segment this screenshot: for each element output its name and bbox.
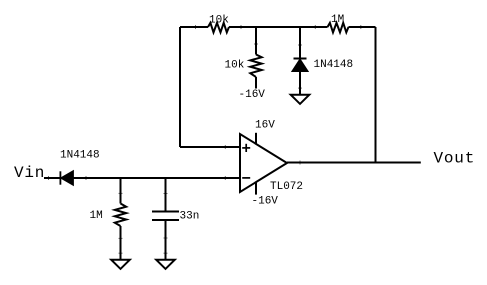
svg-text:-16V: -16V [239,89,266,101]
wire C1 bottom lead [165,220,167,259]
resistor R3 10k (vertical) [250,55,261,78]
svg-text:16V: 16V [255,120,275,132]
diode D2 1N4148 (vertical) [293,59,308,72]
pin tick R1 left [195,25,197,29]
resistor R4 1M (vertical) [115,204,126,227]
svg-text:Vin: Vin [14,164,45,182]
pin tick D1 left [48,176,50,180]
pin tick R1 right [240,25,242,29]
diode D1 1N4148 (input, pointing left) [60,171,73,184]
capacitor C1 33n [152,212,179,221]
svg-text:-16V: -16V [252,196,279,208]
pin tick R4 top [119,192,123,194]
ground (below D2) [291,95,310,104]
wire negative supply pin [255,182,257,195]
op-amp U1 TL072 [240,134,287,192]
svg-text:1M: 1M [331,14,344,26]
pin tick C1 bottom [164,237,168,239]
pin tick U1 output [299,161,301,165]
svg-text:10k: 10k [209,14,229,26]
wire output [287,162,421,164]
wire D2 bottom lead [299,71,301,94]
pin tick D2 bottom [298,87,302,89]
svg-text:1N4148: 1N4148 [60,150,100,162]
op-amp U1 plus input mark [242,144,250,152]
ground (below C1) [156,260,175,269]
wire C1 top lead [165,178,167,212]
pin tick U1 inverting [224,176,226,180]
wire R4 top lead [120,178,122,204]
wire inverting input from Vin [44,177,240,179]
wire R4 bottom lead [120,226,122,259]
wire right vertical feedback [375,27,377,163]
svg-text:1N4148: 1N4148 [314,59,354,71]
svg-text:33n: 33n [180,211,200,223]
wire D2 top lead [299,27,301,58]
wire noninverting input [180,146,240,148]
resistor R2 1M (top horizontal) [328,23,349,33]
resistor R1 10k (top horizontal) [208,23,229,33]
pin tick R4 bottom [119,237,123,239]
wire positive supply pin [255,133,257,144]
wire top middle segment [229,26,328,28]
pin tick ground C1 [164,252,168,254]
pin tick C1 top [164,193,168,195]
pin tick U1 noninverting [224,145,226,149]
pin tick ground R4 [119,252,123,254]
svg-text:TL072: TL072 [270,181,303,193]
wire R3 bottom lead [255,77,257,89]
op-amp U1 minus input mark [242,177,250,179]
wire top-left segment [180,26,208,28]
svg-text:Vout: Vout [434,150,476,168]
pin tick R2 left [314,25,316,29]
svg-text:10k: 10k [225,59,245,71]
wire top-right segment [349,26,376,28]
pin tick R3 top [254,43,258,45]
pin tick D1 right [85,176,87,180]
ground (below R4) [111,260,130,269]
svg-text:1M: 1M [90,210,103,222]
pin tick D2 top [298,44,302,46]
wire R3 top lead [255,27,257,55]
wire left vertical feedback [179,27,181,147]
pin tick R2 right [360,25,362,29]
